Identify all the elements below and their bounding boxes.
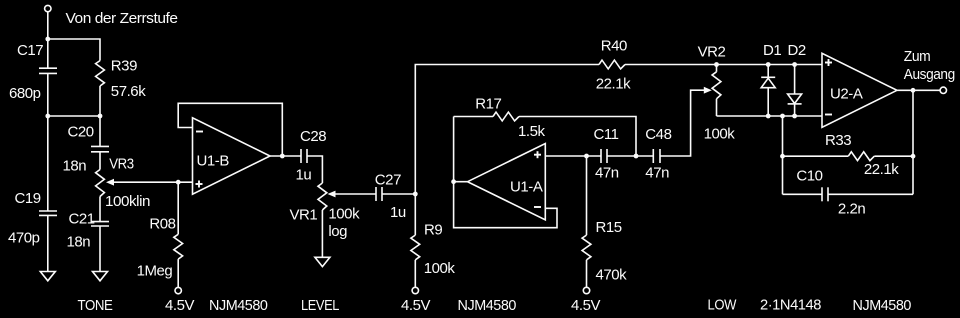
wire VR2 bottom lead	[716, 99, 718, 116]
diode D1	[767, 65, 769, 78]
svg-text:U1-B: U1-B	[197, 153, 230, 170]
node U1-B output junction	[280, 154, 285, 159]
resistor R9	[411, 235, 420, 260]
wire R08 bottom lead	[177, 259, 179, 287]
ground under C19	[40, 272, 55, 281]
resistor R39	[96, 61, 105, 86]
svg-text:D2: D2	[788, 42, 806, 59]
node R08 junction	[176, 180, 181, 185]
op-amp U1-A (mirrored)	[468, 144, 546, 220]
node R15 junction	[584, 154, 589, 159]
svg-text:R17: R17	[475, 96, 501, 113]
svg-text:TONE: TONE	[78, 297, 113, 314]
op-amp U2-A	[822, 53, 897, 127]
terminal R15 4.5V	[583, 287, 589, 293]
wire R9 bottom lead	[414, 260, 416, 287]
wire diode bottom rail	[717, 115, 823, 117]
svg-text:4.5V: 4.5V	[401, 297, 430, 314]
svg-text:LEVEL: LEVEL	[301, 297, 339, 314]
svg-text:22.1k: 22.1k	[596, 76, 631, 93]
wire C48 to VR2 wiper	[660, 90, 704, 156]
wire riser to top rail	[415, 65, 599, 195]
potentiometer VR1	[318, 183, 327, 210]
U2-A plus	[825, 62, 832, 64]
node left mid junction	[45, 114, 50, 119]
potentiometer VR3	[96, 170, 105, 197]
svg-text:57.6k: 57.6k	[111, 83, 146, 100]
wire VR3 wiper to U1-B	[112, 181, 193, 183]
wire C27 to R9 node	[382, 193, 415, 195]
svg-text:VR1: VR1	[290, 207, 318, 224]
node D1 bottom	[766, 114, 771, 119]
input terminal	[45, 5, 51, 11]
svg-text:2·1N4148: 2·1N4148	[760, 297, 821, 314]
svg-text:U1-A: U1-A	[510, 179, 543, 196]
wire C21 bottom lead	[99, 226, 101, 272]
wire R08 top lead	[177, 182, 179, 234]
wire C20 top lead	[99, 116, 101, 146]
svg-text:C11: C11	[594, 126, 619, 143]
svg-text:NJM4580: NJM4580	[853, 297, 912, 314]
terminal R08 4.5V	[175, 287, 181, 293]
node R33 right junction	[911, 154, 916, 159]
svg-text:D1: D1	[763, 42, 781, 59]
svg-text:C27: C27	[375, 172, 401, 189]
wire VR1 wiper to C27	[334, 193, 377, 195]
U1-B minus	[196, 131, 203, 133]
capacitor C20	[91, 145, 109, 147]
svg-text:2.2n: 2.2n	[838, 201, 866, 218]
capacitor C17	[39, 67, 57, 69]
wire C28 to VR1	[307, 156, 322, 183]
svg-text:47n: 47n	[645, 165, 669, 182]
svg-text:18n: 18n	[63, 158, 87, 175]
wire R9 top lead	[414, 194, 416, 235]
wire C19 bottom lead	[47, 215, 49, 271]
terminal output	[940, 87, 946, 93]
wire U1-A output vertical	[453, 117, 455, 182]
resistor R08	[174, 234, 183, 259]
svg-text:NJM4580: NJM4580	[209, 297, 268, 314]
svg-text:Ausgang: Ausgang	[904, 66, 955, 83]
wire VR2 top lead	[716, 65, 718, 72]
node feedback tap	[780, 114, 785, 119]
capacitor C48	[652, 149, 654, 163]
node R9 junction	[413, 192, 418, 197]
svg-text:log: log	[328, 223, 347, 240]
svg-text:470p: 470p	[8, 230, 40, 247]
wire R15 bottom lead	[586, 260, 588, 287]
wire R17 branch	[454, 116, 493, 118]
node R17 drop junction	[634, 154, 639, 159]
wire top rail right	[625, 64, 822, 66]
capacitor C19	[39, 210, 57, 212]
wire feedback right vertical	[912, 90, 914, 194]
svg-text:100klin: 100klin	[105, 193, 150, 210]
svg-text:18n: 18n	[67, 234, 91, 251]
wire mid connector	[48, 115, 100, 117]
svg-text:680p: 680p	[9, 85, 41, 102]
svg-text:22.1k: 22.1k	[864, 161, 899, 178]
wire U1-B output	[270, 155, 301, 157]
wire C19 top lead	[47, 116, 49, 211]
VR2 wiper arrow	[704, 87, 712, 94]
node D2 top	[792, 62, 797, 67]
wire C20 bottom lead	[99, 152, 101, 170]
svg-text:R40: R40	[601, 38, 627, 55]
svg-text:C10: C10	[796, 168, 822, 185]
wire R33 line	[783, 155, 849, 157]
wire feedback tap vertical	[782, 116, 784, 194]
wire U1-A output loop	[454, 182, 557, 228]
capacitor C21	[91, 221, 109, 223]
svg-text:C17: C17	[17, 42, 43, 59]
capacitor C27	[375, 187, 377, 201]
resistor R33	[848, 152, 874, 161]
svg-text:100k: 100k	[424, 260, 456, 277]
svg-text:VR3: VR3	[109, 156, 134, 173]
node U1-A output junction	[451, 179, 456, 184]
node input junction	[45, 37, 50, 42]
wire R39 bottom lead	[99, 86, 101, 116]
wire top connector	[48, 39, 100, 61]
wire U1-A plus input line	[545, 155, 601, 157]
svg-text:R08: R08	[149, 216, 175, 233]
svg-text:C21: C21	[69, 211, 95, 228]
svg-text:R9: R9	[424, 222, 442, 239]
svg-text:100k: 100k	[328, 206, 360, 223]
ground under C21	[93, 272, 108, 281]
svg-text:R15: R15	[596, 219, 622, 236]
svg-text:C20: C20	[68, 124, 94, 141]
node VR2 top junction	[714, 62, 719, 67]
svg-text:1Meg: 1Meg	[137, 263, 173, 280]
svg-text:Zum: Zum	[904, 48, 931, 65]
svg-text:C28: C28	[300, 128, 326, 145]
node R33 left junction	[780, 154, 785, 159]
wire C11 to C48	[607, 155, 653, 157]
svg-text:100k: 100k	[704, 126, 736, 143]
potentiometer VR2	[712, 72, 721, 99]
op-amp U1-B	[193, 118, 271, 194]
node output junction	[911, 88, 916, 93]
svg-text:C48: C48	[645, 126, 671, 143]
resistor R40	[599, 60, 625, 69]
node D2 bottom	[792, 114, 797, 119]
wire U2-A output	[897, 89, 940, 91]
wire input stem	[47, 12, 49, 39]
svg-text:470k: 470k	[596, 267, 628, 284]
node D1 top	[766, 62, 771, 67]
U2-A minus	[825, 114, 832, 116]
svg-text:4.5V: 4.5V	[571, 297, 600, 314]
svg-text:1u: 1u	[390, 204, 406, 221]
svg-text:R33: R33	[825, 132, 851, 149]
wire R15 top lead	[586, 156, 588, 235]
svg-text:4.5V: 4.5V	[165, 297, 194, 314]
ground under VR1	[315, 257, 330, 266]
svg-text:47n: 47n	[595, 165, 619, 182]
svg-text:LOW: LOW	[708, 297, 738, 314]
svg-text:Von der Zerrstufe: Von der Zerrstufe	[66, 10, 178, 27]
svg-text:1.5k: 1.5k	[518, 123, 546, 140]
resistor R15	[582, 235, 591, 260]
wire C17 top lead	[47, 39, 49, 68]
wire C17 bottom lead	[47, 73, 49, 116]
svg-text:1u: 1u	[296, 167, 312, 184]
svg-text:NJM4580: NJM4580	[458, 297, 517, 314]
wire C21 top lead	[99, 197, 101, 222]
wire VR1 bottom lead	[321, 210, 323, 257]
capacitor C11	[600, 149, 602, 163]
terminal R9 4.5V	[412, 287, 418, 293]
capacitor C10	[783, 193, 823, 195]
svg-text:C19: C19	[15, 190, 41, 207]
svg-text:U2-A: U2-A	[830, 86, 863, 103]
node right mid junction	[98, 114, 103, 119]
svg-text:R39: R39	[111, 58, 137, 75]
resistor R17	[493, 112, 519, 121]
wire U1-B feedback	[178, 103, 282, 156]
svg-text:VR2: VR2	[698, 44, 726, 61]
U1-B plus	[196, 183, 203, 185]
U1-A minus	[534, 206, 541, 208]
wire R17 to C11 node	[519, 117, 636, 157]
capacitor C28	[300, 149, 302, 163]
diode D2	[794, 65, 796, 95]
U1-A plus	[534, 154, 541, 156]
VR3 wiper arrow	[106, 179, 114, 186]
VR1 wiper arrow	[328, 191, 336, 198]
